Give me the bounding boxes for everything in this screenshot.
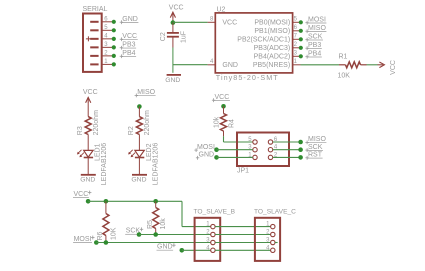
- resistor R1 10K: [339, 64, 346, 66]
- svg-text:RST: RST: [308, 152, 323, 159]
- wire MOSI to JP1 pin 3: [217, 149, 253, 151]
- TO_SLAVE_B pin 4: [211, 248, 215, 252]
- svg-text:PB4: PB4: [122, 50, 135, 57]
- wire R4 to JP1 pin5: [223, 131, 225, 136]
- wire U2 pin1 to R1: [301, 64, 340, 66]
- wire JP1 to SCK: [273, 149, 301, 151]
- svg-text:220ohm: 220ohm: [144, 110, 151, 135]
- svg-text:SCK: SCK: [308, 144, 323, 151]
- svg-text:PB4(ADC2): PB4(ADC2): [254, 54, 291, 61]
- junction R6 bottom: [104, 240, 109, 245]
- svg-text:VCC: VCC: [83, 89, 98, 96]
- svg-text:VCC: VCC: [122, 33, 137, 40]
- op IC U2 Tiny85-20-SMT body: [215, 13, 292, 73]
- JP1 pin 6: [268, 140, 272, 144]
- wire TO_SLAVE_B pin 4 to TO_SLAVE_C pin 4: [215, 249, 270, 251]
- svg-text:GND: GND: [157, 244, 173, 251]
- U2 pin 6 PB1(MISO): [293, 30, 301, 32]
- node VCC at R4: [221, 104, 226, 109]
- svg-text:4: 4: [210, 59, 214, 65]
- SERIAL pin 3: [90, 46, 98, 48]
- svg-text:TO_SLAVE_B: TO_SLAVE_B: [194, 208, 236, 215]
- wire SCK to TO_SLAVE_B pin2: [139, 234, 211, 236]
- svg-text:GND: GND: [131, 177, 146, 184]
- wire GND branch to U2 pin 4: [173, 64, 208, 66]
- svg-text:PB3(ADC3): PB3(ADC3): [254, 45, 291, 52]
- node GND start: [180, 248, 185, 253]
- svg-text:10K: 10K: [110, 227, 117, 240]
- svg-text:GND: GND: [222, 62, 238, 69]
- ground symbol (LED1): [81, 174, 96, 176]
- LED LED2 LEDFAB1206: [135, 150, 144, 157]
- SERIAL pin 6: [90, 21, 98, 23]
- TO_SLAVE_C pin 3: [271, 240, 275, 244]
- svg-text:R2: R2: [128, 126, 135, 135]
- node SCK at JP1: [298, 147, 303, 152]
- node RST at JP1: [298, 155, 303, 160]
- resistor R5 10k: [155, 201, 157, 207]
- svg-text:8: 8: [210, 16, 214, 22]
- svg-text:R6: R6: [97, 231, 104, 240]
- SERIAL pin 4: [90, 38, 98, 40]
- wire MOSI to TO_SLAVE_B pin3: [96, 242, 210, 244]
- node MISO: [137, 104, 142, 109]
- svg-text:5: 5: [294, 16, 298, 22]
- wire VCC rail corner to TO_SLAVE_B pin1: [181, 201, 183, 226]
- svg-text:MISO: MISO: [137, 89, 155, 96]
- U2 pin 5 PB0(MOSI): [293, 21, 301, 23]
- U2 pin 7 PB2(SCK/ADC1): [293, 38, 301, 40]
- wire stub TO_SLAVE_C pin3: [275, 242, 278, 244]
- node/net MISO at U2: [299, 29, 303, 33]
- resistor R4 10k: [221, 114, 227, 132]
- wire TO_SLAVE_B pin 3 to TO_SLAVE_C pin 3: [215, 242, 270, 244]
- junction R5 top: [153, 199, 158, 204]
- svg-text:R4: R4: [229, 119, 236, 128]
- node GND at JP1: [214, 155, 219, 160]
- node VCC start: [86, 199, 91, 204]
- svg-text:PB1(MISO): PB1(MISO): [254, 28, 290, 35]
- JP1 pin 1: [253, 155, 257, 159]
- ground symbol (LED2): [132, 174, 147, 176]
- JP1 pin 5: [253, 140, 257, 144]
- node MOSI start: [94, 240, 99, 245]
- wire JP1 to RST: [273, 156, 301, 158]
- ground symbol (C2): [167, 74, 181, 76]
- TO_SLAVE_C pin 1: [271, 224, 275, 228]
- resistor R6 10K: [105, 201, 107, 213]
- node/net PB4 at U2: [299, 54, 303, 58]
- U2 pin 2 PB3(ADC3): [293, 47, 301, 49]
- TO_SLAVE_B pin 3: [211, 240, 215, 244]
- svg-text:PB3: PB3: [122, 41, 135, 48]
- TO_SLAVE_C pin 4: [271, 248, 275, 252]
- node/net MOSI at U2: [299, 20, 303, 24]
- power symbol VCC (right, pointing right): [378, 64, 384, 66]
- svg-text:PB0(MOSI): PB0(MOSI): [254, 20, 290, 27]
- wire TO_SLAVE_B pin 1 to TO_SLAVE_C pin 1: [215, 226, 270, 228]
- svg-text:PB3: PB3: [308, 42, 321, 49]
- svg-text:MISO: MISO: [308, 136, 326, 143]
- wire R1 to VCC: [367, 64, 378, 66]
- svg-text:GND: GND: [199, 152, 215, 159]
- svg-text:R3: R3: [77, 126, 84, 135]
- JP1 pin 4: [268, 148, 272, 152]
- svg-text:Tiny85-20-SMT: Tiny85-20-SMT: [216, 73, 279, 82]
- U2 pin 4 GND: [208, 64, 216, 66]
- svg-text:R1: R1: [339, 53, 348, 60]
- svg-text:1uF: 1uF: [181, 31, 188, 43]
- capacitor C2: [172, 23, 174, 33]
- connector JP1: [237, 133, 289, 167]
- junction R5 bottom: [153, 232, 158, 237]
- wire JP1 to MISO: [273, 141, 301, 143]
- svg-text:VCC: VCC: [222, 20, 237, 27]
- wire GND to TO_SLAVE_B pin4: [182, 249, 211, 251]
- JP1 pin 3: [253, 148, 257, 152]
- U2 pin 8 VCC: [208, 21, 216, 23]
- svg-text:JP1: JP1: [237, 167, 249, 174]
- TO_SLAVE_B pin 1: [211, 224, 215, 228]
- svg-text:SCK: SCK: [308, 33, 323, 40]
- resistor R2 220ohm: [136, 117, 142, 135]
- svg-text:TO_SLAVE_C: TO_SLAVE_C: [254, 208, 296, 215]
- svg-text:MOSI: MOSI: [197, 144, 215, 151]
- svg-text:10k: 10k: [214, 116, 221, 128]
- node MISO at JP1: [298, 140, 303, 145]
- node MOSI at JP1: [214, 147, 219, 152]
- SERIAL pin 2: [90, 55, 98, 57]
- U2 pin 3 PB4(ADC2): [293, 55, 301, 57]
- wire TO_SLAVE_B pin 2 to TO_SLAVE_C pin 2: [215, 234, 270, 236]
- svg-text:10K: 10K: [338, 72, 351, 79]
- resistor R3 220ohm: [85, 117, 91, 135]
- U2 pin 1 PB5(NRES): [293, 64, 301, 66]
- wire C2 to GND: [172, 37, 174, 47]
- svg-text:220ohm: 220ohm: [93, 110, 100, 135]
- JP1 pin 2: [268, 155, 272, 159]
- svg-text:C2: C2: [160, 32, 167, 41]
- node VCC junction: [171, 20, 176, 25]
- svg-text:VCC: VCC: [169, 4, 184, 11]
- junction R6 top: [104, 199, 109, 204]
- svg-text:MOSI: MOSI: [308, 16, 326, 23]
- SERIAL pin 5: [90, 29, 98, 31]
- svg-text:R5: R5: [147, 220, 154, 229]
- svg-text:GND: GND: [165, 77, 180, 84]
- svg-text:7: 7: [294, 33, 298, 39]
- svg-text:PB2(SCK/ADC1): PB2(SCK/ADC1): [237, 37, 290, 44]
- SERIAL pin 1: [90, 63, 98, 65]
- wire VCC bottom rail: [88, 200, 182, 202]
- svg-text:GND: GND: [80, 177, 95, 184]
- svg-text:SERIAL: SERIAL: [83, 6, 108, 13]
- TO_SLAVE_B pin 2: [211, 232, 215, 236]
- node/net PB3 at U2: [299, 46, 303, 50]
- TO_SLAVE_C pin 2: [271, 232, 275, 236]
- svg-text:2: 2: [294, 42, 298, 48]
- svg-text:VCC: VCC: [74, 191, 89, 198]
- svg-text:6: 6: [294, 25, 298, 31]
- svg-text:VCC: VCC: [215, 94, 230, 101]
- svg-text:U2: U2: [217, 6, 226, 13]
- SERIAL polarity mark: [86, 38, 91, 40]
- node/net SCK at U2: [299, 37, 303, 41]
- svg-text:GND: GND: [122, 16, 138, 23]
- LED LED1 LEDFAB1206: [84, 150, 93, 157]
- svg-text:VCC: VCC: [390, 60, 397, 75]
- svg-text:1: 1: [294, 59, 298, 65]
- svg-text:PB4: PB4: [308, 50, 321, 57]
- svg-text:10k: 10k: [160, 218, 167, 230]
- svg-text:LEDFAB1206: LEDFAB1206: [152, 143, 159, 186]
- node SCK start: [137, 232, 142, 237]
- svg-text:LEDFAB1206: LEDFAB1206: [101, 143, 108, 186]
- svg-text:MOSI: MOSI: [74, 236, 92, 243]
- svg-text:MISO: MISO: [308, 25, 326, 32]
- wire GND to JP1 pin 1: [217, 156, 253, 158]
- svg-text:3: 3: [294, 50, 298, 56]
- svg-text:PB5(NRES): PB5(NRES): [253, 62, 290, 69]
- wire VCC to U2 pin 8: [173, 21, 208, 23]
